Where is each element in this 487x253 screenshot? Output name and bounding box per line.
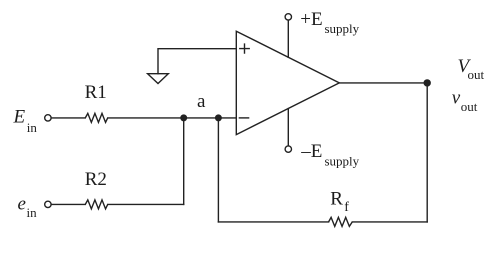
wire E_in to R1 xyxy=(51,117,85,119)
resistor Rf xyxy=(329,217,353,226)
output node dot xyxy=(424,79,431,86)
ground xyxy=(148,74,169,84)
svg-text:supply: supply xyxy=(325,21,360,36)
terminal -E_supply xyxy=(285,146,291,152)
resistor R1 xyxy=(85,113,107,122)
wire output down to feedback xyxy=(426,83,428,222)
terminal E_in xyxy=(45,115,51,121)
wire noninverting input to ground xyxy=(158,49,236,74)
node a junction dot 1 xyxy=(180,114,187,121)
svg-text:E: E xyxy=(13,107,26,128)
svg-text:R: R xyxy=(330,189,343,210)
op-amp U1 triangle xyxy=(236,31,339,134)
svg-text:R1: R1 xyxy=(85,82,107,103)
svg-text:out: out xyxy=(468,67,485,82)
wire feedback tap down xyxy=(217,118,219,222)
terminal +E_supply xyxy=(285,14,291,20)
svg-text:in: in xyxy=(27,120,38,135)
wire node a down to R2 branch xyxy=(183,118,185,204)
wire +E_supply to op-amp xyxy=(287,20,289,57)
svg-text:out: out xyxy=(461,99,478,114)
svg-text:a: a xyxy=(197,91,206,112)
wire R2 to node a branch xyxy=(108,203,184,205)
wire feedback bottom right xyxy=(352,221,427,223)
svg-text:in: in xyxy=(27,205,38,220)
svg-text:+E: +E xyxy=(300,9,322,30)
wire feedback bottom left xyxy=(218,221,328,223)
op-amp minus input marker xyxy=(239,117,248,119)
op-amp plus input marker xyxy=(240,44,249,53)
terminal e_in xyxy=(45,201,51,207)
wire R1 to inverting input xyxy=(108,117,237,119)
svg-text:v: v xyxy=(452,88,461,109)
svg-text:–E: –E xyxy=(300,141,322,162)
svg-text:supply: supply xyxy=(325,153,360,168)
junction dot 2 (feedback tap) xyxy=(215,114,222,121)
resistor R2 xyxy=(85,200,107,209)
wire e_in to R2 xyxy=(51,203,85,205)
wire -E_supply to op-amp xyxy=(287,109,289,146)
svg-text:f: f xyxy=(344,200,349,215)
svg-text:R2: R2 xyxy=(85,169,107,190)
wire op-amp output xyxy=(339,82,427,84)
svg-text:e: e xyxy=(18,194,26,215)
